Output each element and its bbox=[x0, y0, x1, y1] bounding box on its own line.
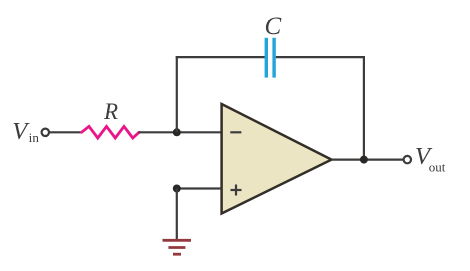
svg-text:out: out bbox=[429, 160, 446, 175]
svg-text:C: C bbox=[265, 13, 282, 40]
capacitor C bbox=[265, 38, 268, 78]
wire: op-amp output bbox=[332, 159, 404, 161]
junction: output node bbox=[360, 156, 368, 164]
input terminal (open circle) bbox=[42, 129, 49, 136]
op-amp inverting pin (minus sign) bbox=[230, 131, 241, 133]
wire: non-inverting input bbox=[177, 187, 222, 189]
wire: feedback top right segment bbox=[276, 56, 365, 58]
wire: resistor to op-amp inverting input bbox=[139, 131, 222, 133]
svg-text:V: V bbox=[12, 119, 29, 145]
wire: input terminal to resistor bbox=[49, 131, 82, 133]
svg-text:in: in bbox=[29, 130, 40, 145]
junction: non-inverting node bbox=[173, 185, 181, 193]
svg-text:R: R bbox=[103, 99, 118, 124]
wire: feedback vertical (right) bbox=[363, 56, 365, 160]
ground bbox=[163, 239, 192, 242]
junction: inverting input node bbox=[173, 128, 181, 136]
wire: feedback vertical (left) bbox=[176, 56, 178, 132]
resistor R bbox=[82, 126, 140, 138]
output terminal (open circle) bbox=[404, 156, 411, 163]
wire: feedback top left segment bbox=[176, 56, 265, 58]
op-amp non-inverting pin (plus sign) bbox=[231, 189, 242, 191]
wire: non-inverting node to ground bbox=[176, 189, 178, 240]
op-amp U1 bbox=[222, 104, 332, 214]
